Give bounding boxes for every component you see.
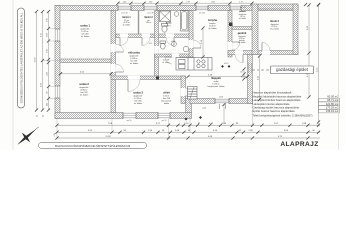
wall: corner connector szoba3/nappali — [186, 99, 192, 113]
door leaf+arc taroló1 — [119, 38, 121, 46]
svg-text:pm 1.39: pm 1.39 — [147, 12, 153, 14]
chimney: dark flue block at konyha/kamra wall — [229, 23, 233, 27]
svg-text:tároló 1: tároló 1 — [122, 16, 131, 19]
svg-text:1.72: 1.72 — [239, 1, 242, 3]
bottom label strip: ingatlan-nyilvántartás — [39, 143, 147, 149]
short vertical dim below terrace door — [223, 104, 225, 124]
svg-text:kamra: kamra — [239, 11, 246, 13]
vertical label strip: neighbour building — [18, 8, 25, 108]
svg-text:-1.12: -1.12 — [202, 107, 206, 109]
fixture: stairs in elotér — [188, 87, 198, 100]
wall: taroló3 top — [258, 4, 298, 9]
svg-text:78: 78 — [241, 77, 243, 79]
left vertical dim line 3 — [48, 11, 50, 110]
window W4 in top wall (kamra) — [230, 5, 241, 11]
wall: fürdo/konyha divider — [189, 11, 193, 58]
svg-text:4.18: 4.18 — [208, 74, 213, 76]
left dim extension ticks to wall — [43, 29, 61, 99]
door leaf+arc szoba3 — [127, 80, 129, 92]
door leaf+arc taroló3 — [261, 43, 263, 51]
bottom dim row B — [57, 131, 320, 133]
right vertical dim overall — [318, 5, 320, 123]
svg-text:1.63: 1.63 — [222, 123, 227, 125]
svg-text:pm03: pm03 — [219, 96, 223, 98]
svg-text:nincs födém: nincs födém — [270, 29, 280, 31]
north arrow compass — [17, 129, 36, 145]
svg-text:vb. födém: vb. födém — [208, 28, 217, 30]
svg-text:1.30: 1.30 — [123, 1, 126, 3]
door leaf+arc gardrob — [242, 55, 244, 63]
level cross at terrace — [185, 116, 203, 121]
door gap taroló3 — [262, 50, 270, 55]
wall: gardrob + taroló3 bottom — [228, 51, 298, 55]
door gap taroló1 — [120, 34, 128, 38]
svg-text:97: 97 — [198, 123, 201, 125]
wall: wc room bottom — [155, 54, 194, 57]
svg-text:vb. födém: vb. födém — [123, 24, 131, 26]
area summary text block — [253, 91, 340, 118]
door gap taroló2 — [142, 34, 150, 38]
top right tick pair over taroló3 — [304, 3, 307, 6]
svg-text:+0.15: +0.15 — [224, 63, 229, 65]
fixture: kitchen counter with sink and stove — [176, 58, 212, 71]
svg-text:vb. födém: vb. födém — [239, 42, 247, 44]
window W9 nappali right wall (subtle gap) — [248, 63, 251, 73]
svg-text:2.79: 2.79 — [201, 39, 203, 44]
svg-text:45: 45 — [37, 115, 39, 117]
door leaf+arc konyha — [193, 47, 201, 49]
svg-text:4.59 m²: 4.59 m² — [166, 24, 172, 27]
svg-text:136.19 m2: 136.19 m2 — [326, 109, 339, 113]
door leaf+arc kamra — [232, 41, 240, 43]
svg-text:pm 1.39: pm 1.39 — [121, 12, 127, 14]
left vertical dim line 1 (overall) — [36, 11, 38, 110]
svg-text:10.33: 10.33 — [35, 57, 37, 63]
wall: bottom outer wall left part — [55, 113, 192, 119]
svg-text:tároló 3: tároló 3 — [270, 20, 279, 23]
svg-text:pm 90: pm 90 — [162, 120, 167, 122]
wall: taroló1/taroló2 divider — [138, 11, 140, 35]
wall: eloszoba right wall — [155, 11, 159, 77]
fixture: bathtub in fürdo — [181, 11, 189, 32]
page fold line left — [12, 0, 14, 150]
svg-text:Telek beépítettségének mértéke: Telek beépítettségének mértéke: 5.38%/9%… — [253, 114, 313, 118]
svg-text:4.52: 4.52 — [88, 130, 93, 132]
svg-text:4.46: 4.46 — [208, 136, 213, 138]
svg-text:1.42: 1.42 — [184, 123, 189, 125]
svg-text:pm 1.50: pm 1.50 — [199, 12, 205, 14]
door leaf+arc szoba1 — [116, 51, 124, 53]
svg-text:65.05 m2: 65.05 m2 — [327, 94, 339, 98]
svg-text:konyha: konyha — [208, 19, 217, 22]
svg-text:INGATLAN-NYILVÁNTARTÁSBAN FELT: INGATLAN-NYILVÁNTARTÁSBAN FELTÜNTETETT É… — [55, 145, 131, 148]
fixture: WC in wc room — [160, 41, 166, 49]
fixture: boiler in wc room — [183, 46, 189, 52]
page fold line right — [338, 0, 340, 150]
door gap konyha — [189, 40, 194, 48]
svg-text:ALAPRAJZ: ALAPRAJZ — [280, 141, 318, 148]
door leaf+arc fürdo — [173, 38, 175, 46]
wall: szoba1/szoba2 right wall (interior main) — [111, 11, 116, 113]
chimney: dark flue block near eloszoba wall — [156, 77, 159, 80]
level cross symbols in nappali — [221, 65, 230, 68]
svg-text:1.88: 1.88 — [302, 123, 307, 125]
fixture: shower tray in fürdo — [160, 11, 171, 22]
terrace door leaves below opening — [220, 104, 226, 109]
svg-text:vb. födém: vb. födém — [80, 94, 89, 96]
wall: kamra/gardrob divider — [232, 27, 252, 30]
svg-text:4.17: 4.17 — [54, 133, 56, 136]
svg-text:vb. födém: vb. födém — [134, 103, 143, 105]
wall: top outer wall — [55, 6, 298, 11]
door gap gardrob — [235, 50, 243, 55]
svg-text:vb. födém: vb. födém — [162, 62, 170, 64]
internal vertical dim 2.79 in konyha — [202, 28, 204, 57]
svg-text:1.88: 1.88 — [47, 49, 49, 52]
svg-text:gazdasági épület: gazdasági épület — [276, 67, 309, 72]
window W1 in top wall (szoba 1 / taroló 1) — [118, 5, 131, 11]
svg-text:vb. födém: vb. födém — [239, 18, 247, 20]
window W8 in bottom wall (elotér) — [158, 112, 170, 119]
svg-text:28: 28 — [123, 130, 126, 132]
svg-text:konyhaszerk. födém: konyhaszerk. födém — [208, 85, 225, 88]
internal dim ticks 60/78 at nappali right — [243, 69, 245, 79]
fixture: washbasin in fürdo — [174, 12, 179, 17]
svg-text:45: 45 — [43, 115, 45, 117]
svg-text:2.79: 2.79 — [186, 1, 189, 3]
door gap fürdo — [166, 34, 174, 38]
svg-text:Lakóépület összes alapterülete: Lakóépület összes alapterülete — [253, 102, 291, 106]
bottom dim row C — [57, 137, 320, 139]
svg-text:vb. födém: vb. födém — [81, 36, 90, 38]
window W2 in top wall (taroló 2) — [144, 5, 157, 11]
wall: elotér/nappali divider — [181, 76, 186, 104]
fixture: washbasin in wc room — [172, 42, 177, 47]
door gap wc — [172, 54, 179, 58]
svg-text:1.94: 1.94 — [148, 130, 153, 132]
door gap eloszoba-wc — [154, 46, 159, 54]
svg-text:173.03 m2: 173.03 m2 — [326, 106, 339, 110]
svg-text:szoba 1: szoba 1 — [80, 24, 90, 28]
wall: taroló3 right outer — [293, 4, 298, 55]
svg-text:3.56: 3.56 — [211, 1, 214, 3]
svg-text:4.14: 4.14 — [213, 130, 218, 132]
door gap konyha-kamra side — [228, 42, 233, 50]
svg-text:Lakóépület bővítés hasznos ala: Lakóépület bővítés hasznos alapterülete — [253, 98, 302, 102]
svg-text:födém: födém — [164, 103, 170, 105]
svg-text:32: 32 — [239, 130, 242, 132]
left vertical dim line 2 — [42, 11, 44, 110]
svg-text:előtér: előtér — [163, 92, 170, 95]
svg-text:1.30: 1.30 — [149, 1, 152, 3]
svg-text:+0.15: +0.15 — [171, 41, 176, 43]
door gap szoba1 — [111, 44, 116, 52]
wall: tarolók + fürdo bottom — [116, 34, 194, 38]
svg-text:99: 99 — [236, 123, 239, 125]
door gap szoba3 — [128, 76, 140, 80]
svg-text:90: 90 — [47, 92, 49, 94]
wall: szoba1/szoba2 divider — [60, 59, 111, 63]
terrace door gap nappali — [215, 98, 229, 104]
bottom dim row A — [57, 124, 320, 126]
svg-text:Meglévő lakóépület hasznos ala: Meglévő lakóépület hasznos alapterülete — [253, 94, 302, 98]
label box: gazdasági épület — [252, 66, 314, 74]
door leaf+arc szoba2 — [116, 71, 124, 73]
internal dim 4.18 in nappali — [188, 76, 248, 78]
wall: kamra/taroló3 divider (right wall of main house top) — [252, 4, 258, 55]
door gap elotér — [181, 88, 186, 96]
door leaf+arc elotér-nappali — [186, 95, 194, 97]
svg-text:tároló 2: tároló 2 — [144, 16, 153, 19]
svg-text:1.50: 1.50 — [47, 18, 49, 21]
wall: konyha/kamra divider — [228, 11, 232, 58]
door leaf+arc wc — [165, 56, 172, 58]
svg-text:4.75: 4.75 — [278, 136, 283, 138]
window W6 in left wall (szoba 2) — [55, 86, 61, 98]
svg-text:60: 60 — [241, 72, 243, 74]
svg-text:fürdő: fürdő — [166, 23, 172, 25]
svg-text:0.25: 0.25 — [149, 43, 152, 45]
svg-text:65.71 m2: 65.71 m2 — [327, 98, 339, 102]
svg-text:Gazdasági épület hasznos alapt: Gazdasági épület hasznos alapterülete — [253, 106, 300, 110]
svg-text:előszoba: előszoba — [128, 51, 140, 55]
svg-text:30: 30 — [312, 130, 315, 132]
svg-text:3.27: 3.27 — [156, 123, 161, 125]
svg-text:szoba 3: szoba 3 — [133, 91, 143, 95]
svg-text:pm 90: pm 90 — [127, 120, 132, 122]
svg-text:gardrób: gardrób — [238, 33, 247, 35]
svg-text:11.82: 11.82 — [105, 136, 111, 138]
svg-text:28: 28 — [162, 130, 165, 132]
svg-text:pm 1.50: pm 1.50 — [240, 7, 246, 9]
right vertical dim at taroló3 side — [308, 5, 310, 98]
svg-text:1.12: 1.12 — [47, 103, 49, 106]
wall: eloszoba bottom — [111, 76, 186, 80]
svg-text:1.99: 1.99 — [209, 123, 214, 125]
svg-text:33: 33 — [188, 130, 191, 132]
svg-text:4.52: 4.52 — [80, 72, 85, 74]
fixture: WC in fürdo — [162, 24, 168, 33]
bottom dim extension lines — [57, 104, 319, 140]
door leaf+arc taroló2 — [141, 38, 143, 46]
svg-text:alapterület: alapterület — [238, 35, 246, 38]
svg-text:szoba 2: szoba 2 — [79, 82, 89, 86]
wall: left outer wall — [55, 6, 60, 119]
svg-text:1.38: 1.38 — [248, 130, 253, 132]
svg-text:3.04: 3.04 — [284, 130, 289, 132]
internal dim 4.52 in szoba 2 — [61, 73, 112, 75]
svg-text:122.86 m2: 122.86 m2 — [326, 102, 339, 106]
window W3 in top wall (konyha) — [196, 5, 208, 11]
wall: nappali right outer — [248, 55, 253, 104]
svg-text:1.08: 1.08 — [47, 33, 49, 36]
door gap szoba2 — [111, 64, 116, 72]
svg-text:vb. födém: vb. födém — [130, 63, 139, 65]
window W7 in bottom wall (szoba 3) — [123, 112, 136, 119]
svg-text:3.04 m²: 3.04 m² — [146, 21, 152, 24]
top dimension chain — [118, 2, 252, 4]
svg-text:2.57: 2.57 — [274, 123, 279, 125]
svg-text:Hasznos alapterület kimutatáso: Hasznos alapterület kimutatások: — [253, 91, 293, 95]
svg-text:2.46: 2.46 — [175, 130, 180, 132]
window W5 in left wall (szoba 1) — [55, 29, 61, 41]
svg-text:2.38: 2.38 — [47, 72, 49, 75]
middle vertical dim right of nappali — [259, 56, 261, 101]
wall: nappali bottom — [190, 99, 253, 104]
svg-text:alapterület: alapterület — [239, 13, 247, 16]
